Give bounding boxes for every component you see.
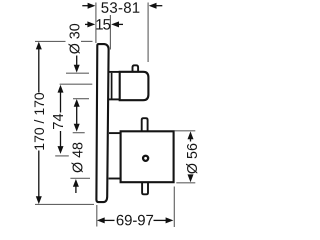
- large knob face: [121, 131, 174, 182]
- small knob face (rounded front): [120, 72, 149, 100]
- svg-text:69-97: 69-97: [116, 212, 154, 228]
- svg-text:170 / 170: 170 / 170: [31, 92, 47, 151]
- 170/170 extension lines: [35, 40, 66, 42]
- large knob center dot: [143, 156, 148, 161]
- wall plate escutcheon (side view): [96, 44, 108, 202]
- large knob bottom stem: [142, 183, 148, 195]
- dimension 53-81 arrows: [82, 5, 89, 7]
- dimension 69-97 extension lines: [96, 205, 98, 227]
- dimension Ø30 top arrow: [76, 56, 78, 66]
- dimension 69-97 arrows: [97, 217, 105, 223]
- dimension 15 arrows: [85, 23, 91, 25]
- dimension 74 arrows: [58, 85, 64, 93]
- svg-text:15: 15: [95, 16, 110, 33]
- extension line right of 53-81: [147, 3, 149, 63]
- Ø30 extension lines: [66, 72, 89, 74]
- svg-text:74: 74: [51, 113, 67, 129]
- dimension Ø48 top arrow: [74, 124, 80, 132]
- Ø48 extension lines: [73, 132, 85, 134]
- svg-text:Ø 30: Ø 30: [68, 23, 84, 54]
- dimension Ø56 arrows: [188, 131, 194, 139]
- dimension Ø48 bottom arrow: [73, 179, 79, 187]
- small knob sleeve front edge: [111, 73, 113, 99]
- large knob barrel: [109, 132, 121, 134]
- small knob barrel (top handle): [109, 71, 120, 73]
- extension line top-left (53-81 / 15 left reference, wall line): [95, 3, 97, 44]
- svg-text:53-81: 53-81: [101, 0, 141, 17]
- large knob top stem: [142, 118, 148, 131]
- extension line right of 15: [109, 15, 111, 50]
- Ø56 extension lines: [175, 130, 196, 132]
- svg-text:Ø 48: Ø 48: [71, 142, 87, 173]
- svg-text:Ø 56: Ø 56: [185, 143, 201, 174]
- small knob stem bump: [133, 65, 139, 71]
- 74 extension lines: [60, 83, 93, 85]
- dimension Ø30 bottom arrow / shared shaft: [76, 107, 78, 125]
- dimension 170/170 line: [38, 49, 40, 93]
